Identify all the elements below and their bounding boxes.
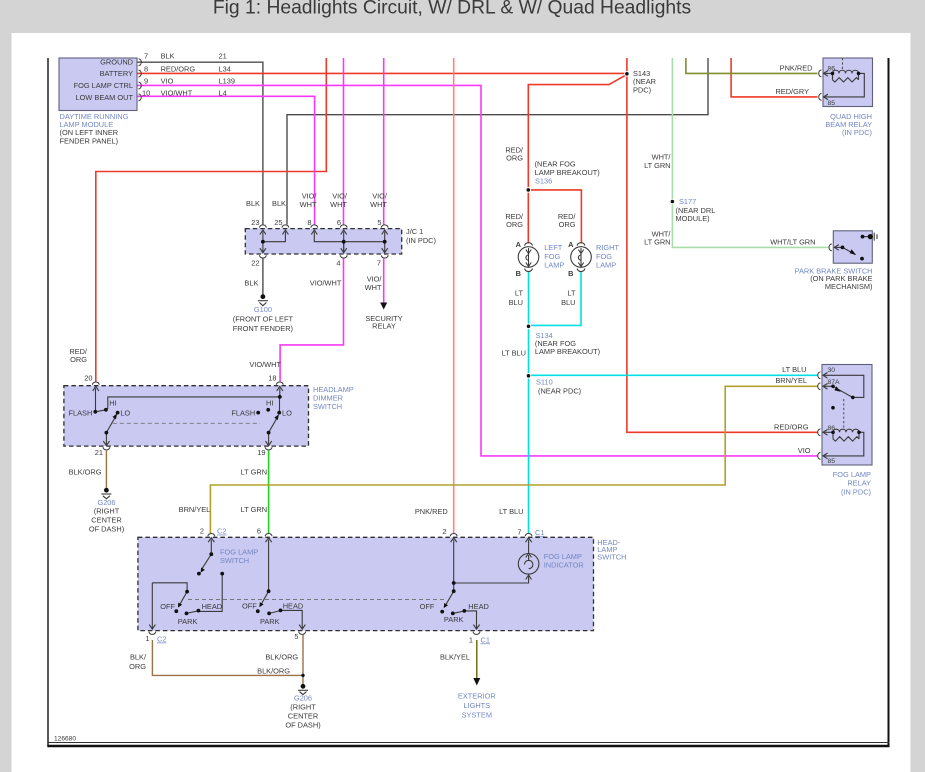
- svg-text:OFF: OFF: [242, 602, 257, 611]
- svg-text:LEFT: LEFT: [544, 243, 563, 252]
- svg-text:L4: L4: [219, 88, 227, 97]
- svg-text:C1: C1: [481, 635, 490, 644]
- svg-text:WHT/LT GRN: WHT/LT GRN: [770, 238, 815, 247]
- svg-text:LT GRN: LT GRN: [644, 161, 670, 170]
- svg-text:5: 5: [294, 632, 298, 641]
- svg-text:FOG LAMP CTRL: FOG LAMP CTRL: [74, 81, 133, 90]
- svg-text:RED/ORG: RED/ORG: [774, 422, 809, 431]
- svg-text:S177: S177: [679, 197, 696, 206]
- svg-text:BLK/: BLK/: [130, 652, 147, 661]
- svg-text:BRN/YEL: BRN/YEL: [179, 505, 211, 514]
- svg-text:RELAY: RELAY: [372, 321, 396, 330]
- svg-text:20: 20: [84, 373, 92, 382]
- svg-text:85: 85: [828, 458, 836, 465]
- svg-text:(NEAR PDC): (NEAR PDC): [538, 386, 581, 395]
- svg-text:RIGHT: RIGHT: [596, 243, 619, 252]
- svg-text:PARK: PARK: [444, 615, 464, 624]
- svg-text:ORG: ORG: [70, 355, 87, 364]
- svg-text:C2: C2: [217, 527, 226, 536]
- svg-text:22: 22: [251, 259, 259, 268]
- svg-text:LT GRN: LT GRN: [241, 467, 267, 476]
- svg-text:LIGHTS: LIGHTS: [463, 701, 490, 710]
- svg-text:LT GRN: LT GRN: [241, 505, 267, 514]
- svg-text:MECHANISM): MECHANISM): [825, 282, 873, 291]
- svg-text:HEAD: HEAD: [468, 602, 489, 611]
- svg-text:LAMP: LAMP: [544, 261, 564, 270]
- svg-text:8: 8: [144, 64, 148, 73]
- svg-text:HEAD: HEAD: [202, 602, 223, 611]
- svg-text:GROUND: GROUND: [100, 58, 133, 67]
- svg-text:Fig 1: Headlights Circuit, W/: Fig 1: Headlights Circuit, W/ DRL & W/ Q…: [213, 0, 691, 19]
- svg-text:BLK: BLK: [244, 279, 258, 288]
- svg-text:7: 7: [377, 259, 381, 268]
- svg-text:SWITCH: SWITCH: [220, 556, 249, 565]
- svg-text:85: 85: [828, 100, 836, 107]
- svg-text:BLK: BLK: [161, 52, 175, 61]
- svg-text:LO: LO: [282, 408, 292, 417]
- svg-text:FOG LAMP: FOG LAMP: [544, 552, 582, 561]
- svg-text:INDICATOR: INDICATOR: [544, 561, 584, 570]
- svg-text:1: 1: [469, 635, 473, 644]
- svg-text:SYSTEM: SYSTEM: [462, 711, 492, 720]
- svg-text:25: 25: [274, 218, 282, 227]
- svg-text:FOG LAMP: FOG LAMP: [220, 547, 258, 556]
- svg-text:7: 7: [144, 52, 148, 61]
- svg-text:BLK/ORG: BLK/ORG: [265, 652, 298, 661]
- svg-text:WHT: WHT: [370, 200, 387, 209]
- svg-text:CENTER: CENTER: [91, 516, 121, 525]
- svg-text:BLU: BLU: [561, 298, 575, 307]
- svg-text:B: B: [516, 269, 521, 278]
- svg-text:ORG: ORG: [129, 662, 146, 671]
- svg-text:BLU: BLU: [509, 298, 523, 307]
- svg-text:19: 19: [257, 448, 265, 457]
- svg-text:B: B: [568, 269, 573, 278]
- svg-text:LT: LT: [567, 289, 576, 298]
- svg-text:L34: L34: [219, 64, 231, 73]
- svg-text:LT BLU: LT BLU: [782, 365, 806, 374]
- svg-text:PARK: PARK: [178, 617, 198, 626]
- svg-text:WHT: WHT: [330, 200, 347, 209]
- svg-text:(IN PDC): (IN PDC): [841, 488, 871, 497]
- svg-text:23: 23: [251, 218, 259, 227]
- svg-text:FENDER PANEL): FENDER PANEL): [60, 136, 119, 145]
- svg-text:BLK/YEL: BLK/YEL: [440, 652, 470, 661]
- svg-text:MODULE): MODULE): [676, 214, 710, 223]
- svg-text:C2: C2: [157, 635, 166, 644]
- svg-text:PDC): PDC): [633, 85, 651, 94]
- svg-text:(FRONT OF LEFT: (FRONT OF LEFT: [233, 315, 294, 324]
- svg-text:OF DASH): OF DASH): [89, 525, 124, 534]
- svg-text:9: 9: [144, 77, 148, 86]
- svg-text:2: 2: [442, 527, 446, 536]
- svg-text:A: A: [516, 240, 522, 249]
- svg-text:2: 2: [200, 527, 204, 536]
- svg-text:LO: LO: [120, 408, 130, 417]
- svg-text:SWITCH: SWITCH: [597, 552, 626, 561]
- svg-text:L139: L139: [219, 77, 235, 86]
- svg-text:1: 1: [145, 634, 149, 643]
- svg-text:FLASH: FLASH: [231, 408, 255, 417]
- svg-text:ORG: ORG: [559, 220, 576, 229]
- svg-text:HI: HI: [109, 399, 116, 408]
- svg-text:BATTERY: BATTERY: [100, 69, 133, 78]
- svg-text:BLK: BLK: [272, 199, 286, 208]
- svg-text:18: 18: [268, 373, 276, 382]
- svg-text:A: A: [568, 240, 574, 249]
- svg-text:PARK: PARK: [260, 617, 280, 626]
- svg-text:VIO: VIO: [798, 446, 811, 455]
- svg-text:HEAD: HEAD: [283, 602, 304, 611]
- svg-text:FRONT FENDER): FRONT FENDER): [233, 324, 293, 333]
- svg-text:EXTERIOR: EXTERIOR: [458, 692, 496, 701]
- svg-text:G100: G100: [254, 305, 272, 314]
- svg-text:LOW BEAM OUT: LOW BEAM OUT: [76, 93, 134, 102]
- svg-text:6: 6: [337, 218, 341, 227]
- svg-text:PNK/RED: PNK/RED: [780, 64, 813, 73]
- svg-text:126680: 126680: [54, 735, 76, 742]
- svg-text:J/C 1: J/C 1: [406, 227, 423, 236]
- svg-text:C1: C1: [535, 528, 544, 537]
- svg-text:WHT: WHT: [365, 283, 382, 292]
- svg-text:VIO/WHT: VIO/WHT: [249, 360, 281, 369]
- svg-text:OFF: OFF: [420, 602, 435, 611]
- svg-text:LT BLU: LT BLU: [499, 507, 523, 516]
- svg-text:ORG: ORG: [506, 154, 523, 163]
- svg-text:87A: 87A: [828, 379, 841, 386]
- svg-text:4: 4: [336, 259, 340, 268]
- svg-text:ORG: ORG: [506, 220, 523, 229]
- svg-text:5: 5: [377, 218, 381, 227]
- svg-text:S110: S110: [536, 377, 553, 386]
- svg-text:RELAY: RELAY: [847, 479, 871, 488]
- svg-text:30: 30: [828, 367, 836, 374]
- svg-text:FOG LAMP: FOG LAMP: [833, 470, 871, 479]
- svg-text:PNK/RED: PNK/RED: [415, 507, 448, 516]
- svg-text:LAMP BREAKOUT): LAMP BREAKOUT): [535, 347, 600, 356]
- svg-text:21: 21: [95, 448, 103, 457]
- svg-text:8: 8: [307, 218, 311, 227]
- svg-text:RED/ORG: RED/ORG: [161, 64, 196, 73]
- svg-text:(RIGHT: (RIGHT: [290, 702, 316, 711]
- svg-text:HI: HI: [266, 399, 273, 408]
- svg-text:SWITCH: SWITCH: [313, 402, 342, 411]
- svg-text:(IN PDC): (IN PDC): [406, 236, 436, 245]
- svg-text:BLK/ORG: BLK/ORG: [69, 467, 102, 476]
- svg-text:WHT: WHT: [300, 200, 317, 209]
- svg-text:BLK: BLK: [246, 199, 260, 208]
- svg-text:VIO/WHT: VIO/WHT: [310, 279, 342, 288]
- svg-text:LT: LT: [515, 289, 524, 298]
- svg-text:FLASH: FLASH: [68, 408, 92, 417]
- svg-text:CENTER: CENTER: [288, 711, 318, 720]
- svg-text:LT GRN: LT GRN: [644, 238, 670, 247]
- svg-text:OFF: OFF: [160, 602, 175, 611]
- svg-text:BLK/ORG: BLK/ORG: [257, 667, 290, 676]
- svg-text:G206: G206: [294, 693, 312, 702]
- svg-text:21: 21: [219, 52, 227, 61]
- svg-text:RED/GRY: RED/GRY: [775, 87, 809, 96]
- svg-text:6: 6: [257, 527, 261, 536]
- svg-text:S136: S136: [535, 176, 552, 185]
- svg-text:BRN/YEL: BRN/YEL: [775, 376, 807, 385]
- svg-text:86: 86: [828, 425, 836, 432]
- svg-text:LAMP: LAMP: [596, 261, 616, 270]
- svg-text:7: 7: [517, 528, 521, 537]
- svg-text:(IN PDC): (IN PDC): [842, 128, 872, 137]
- svg-text:VIO/WHT: VIO/WHT: [161, 88, 193, 97]
- svg-text:LT BLU: LT BLU: [502, 348, 526, 357]
- svg-text:(RIGHT: (RIGHT: [94, 507, 120, 516]
- svg-text:OF DASH): OF DASH): [285, 720, 320, 729]
- svg-text:86: 86: [828, 65, 836, 72]
- svg-text:10: 10: [142, 88, 150, 97]
- svg-text:VIO: VIO: [161, 77, 174, 86]
